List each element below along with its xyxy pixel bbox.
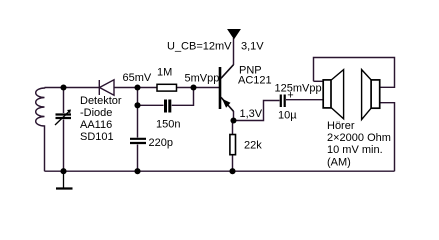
svg-text:10µ: 10µ [278, 110, 297, 122]
earphone left capsule [323, 70, 343, 119]
junction node 5mVpp [190, 84, 196, 90]
svg-text:5mVpp: 5mVpp [185, 73, 220, 85]
svg-text:Hörer: Hörer [327, 120, 355, 132]
earphone right capsule [362, 70, 380, 120]
wire varcap branch [63, 88, 65, 172]
supply symbol 3,1V triangle [228, 30, 240, 39]
svg-text:220p: 220p [149, 137, 173, 149]
junction tuned-circuit top node [60, 84, 66, 90]
wire ground rail [45, 170, 395, 172]
svg-text:150n: 150n [156, 119, 180, 131]
svg-text:3,1V: 3,1V [241, 41, 264, 53]
svg-text:125mVpp: 125mVpp [275, 83, 322, 95]
svg-text:22k: 22k [244, 140, 262, 152]
svg-text:Detektor: Detektor [80, 95, 122, 107]
ground [56, 171, 73, 188]
resistor 22k [230, 135, 236, 155]
svg-text:10 mV min.: 10 mV min. [327, 144, 383, 156]
junction 22k ground [229, 168, 235, 174]
wire collector to supply [233, 38, 235, 65]
svg-text:(AM): (AM) [327, 157, 351, 169]
svg-text:1,3V: 1,3V [240, 108, 263, 120]
junction 220p ground [134, 168, 140, 174]
capacitor 220p [130, 139, 146, 143]
junction node 65mV [134, 84, 140, 90]
svg-text:65mV: 65mV [123, 72, 152, 84]
junction node 1,3V [230, 117, 236, 123]
svg-text:U_CB=12mV: U_CB=12mV [167, 41, 232, 53]
capacitor 10u [281, 95, 285, 108]
transistor PNP AC121 [220, 65, 234, 112]
svg-text:-Diode: -Diode [80, 107, 112, 119]
wire right speaker lower terminal [380, 103, 395, 172]
svg-text:AA116: AA116 [80, 119, 112, 131]
resistor 1M [157, 84, 177, 91]
capacitor 150n [166, 100, 170, 113]
svg-text:SD101: SD101 [80, 131, 114, 143]
svg-text:1M: 1M [157, 67, 172, 79]
wire speaker top rail [314, 58, 395, 88]
node 1.3V wires [234, 101, 280, 121]
svg-text:2×2000 Ohm: 2×2000 Ohm [327, 132, 391, 144]
wire left speaker upper terminal [314, 80, 324, 82]
wire 220p branch [137, 88, 139, 172]
wire emitter down [233, 111, 235, 121]
wire 150n branch [138, 88, 194, 106]
diode AA116/SD101 [99, 80, 114, 95]
svg-text:AC121: AC121 [238, 75, 272, 87]
svg-text:+: + [287, 89, 293, 101]
junction 150n tap [134, 102, 140, 108]
wire 22k branch [232, 121, 234, 172]
variable capacitor (tuning) [55, 111, 71, 125]
inductor antenna coil [36, 88, 45, 172]
junction ground node [60, 168, 66, 174]
wire cap to speaker [286, 99, 323, 101]
wire top signal rail [45, 87, 220, 89]
